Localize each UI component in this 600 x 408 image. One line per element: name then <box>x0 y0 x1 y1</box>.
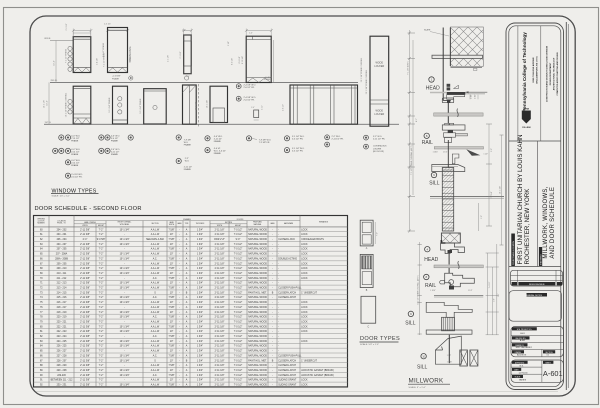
svg-text:2'-1 1/8": 2'-1 1/8" <box>180 51 182 58</box>
svg-text:10'-1 3/4": 10'-1 3/4" <box>120 370 130 372</box>
svg-text:2'-11 1/8": 2'-11 1/8" <box>215 263 225 265</box>
window tag bubbles column A <box>53 135 84 179</box>
svg-text:LOCK: LOCK <box>301 312 308 314</box>
svg-text:FROM - TO: FROM - TO <box>57 223 66 225</box>
svg-text:10": 10" <box>170 244 174 246</box>
svg-text:NATURAL WOOD: NATURAL WOOD <box>248 384 267 387</box>
svg-text:1 3/4": 1 3/4" <box>197 292 203 294</box>
svg-text:10": 10" <box>170 341 174 343</box>
svg-text:LOCK: LOCK <box>301 263 308 265</box>
svg-text:7'-0 1/2": 7'-0 1/2" <box>234 380 243 382</box>
svg-text:2'-11 3/8": 2'-11 3/8" <box>80 292 90 294</box>
svg-text:2'-11 1/8": 2'-11 1/8" <box>215 229 225 231</box>
door type A elevation <box>360 220 378 250</box>
rail callout bubble 8 <box>422 133 433 146</box>
svg-text:DOOR TYPES: DOOR TYPES <box>360 336 400 342</box>
svg-text:2'-11 3/8": 2'-11 3/8" <box>80 278 90 280</box>
window tag bubbles column B <box>99 135 134 156</box>
svg-text:1 3/4": 1 3/4" <box>197 317 203 319</box>
svg-text:207 - 205: 207 - 205 <box>57 249 68 251</box>
svg-text:2'-11 3/8": 2'-11 3/8" <box>80 268 90 270</box>
svg-text:1ST FL: 1ST FL <box>45 122 52 124</box>
svg-text:214 - 215: 214 - 215 <box>57 292 68 294</box>
svg-text:7'-2": 7'-2" <box>99 370 104 372</box>
svg-text:10": 10" <box>170 234 174 236</box>
college inner box lines <box>518 26 541 141</box>
svg-text:1'-0": 1'-0" <box>481 215 483 219</box>
svg-text:7'-2": 7'-2" <box>99 283 104 285</box>
svg-text:2'-11 1/8": 2'-11 1/8" <box>215 312 225 314</box>
svg-text:2'-11 1/8": 2'-11 1/8" <box>215 321 225 323</box>
svg-text:COMPUTER AIDED DRAFTING AND DE: COMPUTER AIDED DRAFTING AND DESIGN <box>556 52 559 96</box>
window type elevation V2 <box>108 86 128 124</box>
datum line second floor <box>50 80 358 82</box>
svg-text:7'-2 1/2" FRAME: 7'-2 1/2" FRAME <box>102 52 105 67</box>
window jamb channel <box>443 28 451 101</box>
svg-text:7'-2 1/2" FRAME: 7'-2 1/2" FRAME <box>65 48 68 63</box>
svg-text:208A - 208B: 208A - 208B <box>55 257 68 260</box>
svg-text:A.A.L.W: A.A.L.W <box>151 267 160 270</box>
glass stop head <box>442 98 453 103</box>
svg-text:222 - 223: 222 - 223 <box>57 331 68 333</box>
svg-text:12/7/2000: 12/7/2000 <box>519 372 529 374</box>
svg-text:LOCK: LOCK <box>301 385 308 387</box>
svg-text:2'-11 3/8": 2'-11 3/8" <box>80 263 90 265</box>
svg-text:ACOUSTIC GASKET (BRD-80): ACOUSTIC GASKET (BRD-80) <box>301 374 334 377</box>
svg-text:7'-0 1/2": 7'-0 1/2" <box>234 249 243 251</box>
svg-text:2'-11 3/8": 2'-11 3/8" <box>80 317 90 319</box>
svg-text:A.A.L.W: A.A.L.W <box>151 272 160 275</box>
svg-text:2 1/8": 2 1/8" <box>228 41 230 46</box>
svg-text:CLOSER-LATCH: CLOSER-LATCH <box>278 364 296 367</box>
svg-text:PAINT HOL. MET.: PAINT HOL. MET. <box>248 359 267 362</box>
svg-text:2'-11 1/2" FR.: 2'-11 1/2" FR. <box>332 139 345 141</box>
svg-text:2'-11 1/8": 2'-11 1/8" <box>215 370 225 372</box>
svg-text:4'-1": 4'-1" <box>416 118 418 122</box>
svg-text:2'-11 3/8": 2'-11 3/8" <box>80 385 90 387</box>
svg-text:10'-1 3/4": 10'-1 3/4" <box>120 229 130 231</box>
svg-text:A.C.: A.C. <box>153 316 158 319</box>
svg-text:DESIGN DEPARTMENT: DESIGN DEPARTMENT <box>549 62 552 85</box>
svg-text:7'-0 1/2": 7'-0 1/2" <box>234 346 243 348</box>
svg-text:10'-1 3/4": 10'-1 3/4" <box>120 239 130 241</box>
svg-text:2'-11 3/8": 2'-11 3/8" <box>80 326 90 328</box>
svg-text:1 1/16": 1 1/16" <box>433 151 439 153</box>
svg-text:5'-6 1/2": 5'-6 1/2" <box>283 104 285 111</box>
svg-text:A.A.L.W: A.A.L.W <box>151 233 160 236</box>
svg-text:7'-2": 7'-2" <box>99 297 104 299</box>
svg-text:NET SIZE: NET SIZE <box>225 222 232 224</box>
svg-text:2 1/8": 2 1/8" <box>471 94 473 99</box>
svg-text:10'-2": 10'-2" <box>54 60 56 65</box>
svg-text:7'-2": 7'-2" <box>99 331 104 333</box>
svg-text:2'-11 1/8": 2'-11 1/8" <box>215 336 225 338</box>
svg-text:ARCHITECTURAL TECHNOLOGY: ARCHITECTURAL TECHNOLOGY <box>553 57 556 90</box>
svg-text:7'-2": 7'-2" <box>99 346 104 348</box>
svg-text:7'-0 1/2": 7'-0 1/2" <box>234 341 243 343</box>
svg-text:LOCK: LOCK <box>301 326 308 328</box>
svg-text:10'-1 3/4" FRAME: 10'-1 3/4" FRAME <box>108 97 111 113</box>
project name label chip <box>511 234 515 267</box>
svg-text:207 - 208A: 207 - 208A <box>56 253 68 256</box>
svg-text:218 - 217: 218 - 217 <box>57 307 68 309</box>
svg-text:A.A.L.W: A.A.L.W <box>151 287 160 290</box>
svg-text:LOCK: LOCK <box>301 258 308 260</box>
svg-text:10'-1 3/4": 10'-1 3/4" <box>120 283 130 285</box>
dimension ticks above windows <box>72 29 273 37</box>
svg-text:HEIGHT: HEIGHT <box>98 225 104 227</box>
svg-text:7 5/8": 7 5/8" <box>168 326 174 328</box>
svg-text:2'-11 1/8": 2'-11 1/8" <box>215 317 225 319</box>
svg-text:7 5/8": 7 5/8" <box>168 355 174 357</box>
slate band <box>424 29 483 59</box>
svg-text:1 1/2": 1 1/2" <box>468 290 473 292</box>
svg-text:2'-11 1/8": 2'-11 1/8" <box>215 365 225 367</box>
svg-text:2'-11 3/8": 2'-11 3/8" <box>80 258 90 260</box>
svg-text:2'-11 3/8": 2'-11 3/8" <box>80 360 90 362</box>
svg-text:7'-2": 7'-2" <box>99 380 104 382</box>
svg-text:1" UNDERCUT: 1" UNDERCUT <box>301 292 317 294</box>
general notes box <box>509 291 562 322</box>
svg-text:A.A.L.W: A.A.L.W <box>151 340 160 343</box>
svg-text:10'-2 1/8": 10'-2 1/8" <box>44 100 46 108</box>
inner margin line bottom <box>36 391 558 393</box>
svg-text:WIDTH: WIDTH <box>82 225 88 227</box>
window tag bubbles pair right <box>325 135 344 147</box>
svg-text:2'-11 1/2" FR.: 2'-11 1/2" FR. <box>373 138 386 140</box>
svg-text:2'-11 1/8": 2'-11 1/8" <box>215 302 225 304</box>
svg-text:1 3/4": 1 3/4" <box>197 365 203 367</box>
svg-text:1 3/4": 1 3/4" <box>197 239 203 241</box>
level band upper <box>434 109 483 117</box>
svg-text:2'-11 1/8": 2'-11 1/8" <box>215 380 225 382</box>
svg-text:FRAME: FRAME <box>111 153 119 156</box>
svg-text:2'-11 3/8": 2'-11 3/8" <box>80 321 90 323</box>
svg-text:NATURAL WOOD: NATURAL WOOD <box>248 272 267 275</box>
svg-text:1 3/4": 1 3/4" <box>197 312 203 314</box>
svg-text:NATURAL WOOD: NATURAL WOOD <box>248 262 267 265</box>
svg-text:ERIC LAUGHREY: ERIC LAUGHREY <box>516 346 533 349</box>
svg-text:ROCHESTER, NEW YORK: ROCHESTER, NEW YORK <box>524 188 531 265</box>
svg-text:NATURAL WOOD: NATURAL WOOD <box>248 282 267 285</box>
svg-text:2'-11 1/8": 2'-11 1/8" <box>215 288 225 290</box>
svg-text:2'-11 3/8": 2'-11 3/8" <box>80 307 90 309</box>
svg-text:10'-2": 10'-2" <box>47 100 49 105</box>
svg-text:224 - 225: 224 - 225 <box>57 341 68 343</box>
svg-text:CLOSER PUSH-PULL: CLOSER PUSH-PULL <box>278 288 302 290</box>
svg-text:2'-11 1/8": 2'-11 1/8" <box>215 297 225 299</box>
svg-text:NATURAL WOOD: NATURAL WOOD <box>248 325 267 328</box>
svg-text:7'-1 1/8" (B.F.F.): 7'-1 1/8" (B.F.F.) <box>407 61 409 75</box>
revisions box <box>511 270 563 286</box>
svg-text:NATURAL WOOD: NATURAL WOOD <box>248 287 267 290</box>
svg-text:10'-1 3/4": 10'-1 3/4" <box>120 302 130 304</box>
svg-text:2ND FL: 2ND FL <box>51 80 59 82</box>
svg-text:FRAME: FRAME <box>264 78 271 81</box>
svg-text:10": 10" <box>170 380 174 382</box>
door schedule heading <box>35 206 142 212</box>
svg-text:10'-1 3/4": 10'-1 3/4" <box>120 268 130 270</box>
svg-text:7'-2": 7'-2" <box>99 288 104 290</box>
svg-text:10'-1 3/4": 10'-1 3/4" <box>120 385 130 387</box>
svg-text:NATURAL WOOD: NATURAL WOOD <box>248 364 267 367</box>
svg-text:2'-11 3/8": 2'-11 3/8" <box>80 355 90 357</box>
svg-text:10'-1 3/4": 10'-1 3/4" <box>120 360 130 362</box>
svg-text:PAINT HOL. MET.: PAINT HOL. MET. <box>248 291 267 294</box>
svg-text:MILLWORK: MILLWORK <box>409 377 445 384</box>
svg-text:10'-1 3/4": 10'-1 3/4" <box>120 288 130 290</box>
svg-text:1 3/4": 1 3/4" <box>197 234 203 236</box>
svg-text:7'-2": 7'-2" <box>99 365 104 367</box>
svg-text:7 5/8": 7 5/8" <box>168 385 174 387</box>
svg-text:LOCK: LOCK <box>301 273 308 275</box>
svg-text:SECTION: SECTION <box>151 223 159 225</box>
svg-text:2'-11 3/8": 2'-11 3/8" <box>80 375 90 377</box>
window type elevation V5 <box>207 86 228 122</box>
svg-text:1 3/4": 1 3/4" <box>197 244 203 246</box>
glazing triangle head <box>454 85 459 88</box>
level band millwork <box>434 261 483 269</box>
svg-text:7'-2 3/8" FR.: 7'-2 3/8" FR. <box>259 142 271 144</box>
svg-text:2'-11 3/8": 2'-11 3/8" <box>80 370 90 372</box>
svg-text:2'-11 3/8": 2'-11 3/8" <box>80 283 90 285</box>
svg-text:7'-1 1/8" FRAME OVERALL (A.F.T: 7'-1 1/8" FRAME OVERALL (A.F.T.) <box>410 145 413 175</box>
sill callout bubble 6 <box>429 172 440 186</box>
svg-text:2'-11 1/8": 2'-11 1/8" <box>215 268 225 270</box>
svg-text:7'-2": 7'-2" <box>99 336 104 338</box>
svg-text:10": 10" <box>170 370 174 372</box>
svg-text:ACOUSTIC GASKET (BRD-80): ACOUSTIC GASKET (BRD-80) <box>301 369 334 372</box>
college name text <box>522 32 527 112</box>
svg-text:RAIL: RAIL <box>425 283 436 289</box>
svg-text:7'-0 1/2": 7'-0 1/2" <box>234 273 243 275</box>
svg-text:7'-2": 7'-2" <box>99 229 104 231</box>
svg-text:REMARKS: REMARKS <box>319 220 329 223</box>
window type elevation V3 <box>139 89 166 124</box>
svg-text:7'-2": 7'-2" <box>99 273 104 275</box>
svg-text:10": 10" <box>170 302 174 304</box>
svg-text:2'-11 1/8": 2'-11 1/8" <box>215 278 225 280</box>
svg-text:2'-11 1/8": 2'-11 1/8" <box>215 292 225 294</box>
svg-text:2'-1": 2'-1" <box>182 30 186 32</box>
svg-text:10": 10" <box>170 360 174 362</box>
svg-text:7'-0 1/2": 7'-0 1/2" <box>234 297 243 299</box>
svg-text:10'-1 3/4": 10'-1 3/4" <box>120 254 130 256</box>
svg-text:7'-2": 7'-2" <box>99 302 104 304</box>
svg-text:7 5/8": 7 5/8" <box>168 336 174 338</box>
svg-text:1 3/4": 1 3/4" <box>197 283 203 285</box>
head dim box <box>470 94 478 99</box>
svg-text:10'-1 3/4": 10'-1 3/4" <box>120 273 130 275</box>
svg-text:SILL: SILL <box>417 364 428 370</box>
svg-text:7'-0 1/2": 7'-0 1/2" <box>234 244 243 246</box>
svg-text:CLOSER-LOCK: CLOSER-LOCK <box>278 239 295 241</box>
svg-text:1 3/4": 1 3/4" <box>197 278 203 280</box>
svg-text:5'-6 1/2" FR.: 5'-6 1/2" FR. <box>292 151 304 153</box>
svg-text:20'-1 3/4" FRAME OVERALL: 20'-1 3/4" FRAME OVERALL <box>360 58 363 82</box>
svg-text:LOCK: LOCK <box>301 278 308 280</box>
svg-text:2'-0": 2'-0" <box>249 33 253 35</box>
door schedule header text <box>37 218 329 227</box>
svg-text:RAIL: RAIL <box>422 140 433 146</box>
project info box <box>511 326 563 356</box>
svg-text:SECTION:: SECTION: <box>545 352 553 354</box>
svg-text:NATURAL WOOD: NATURAL WOOD <box>248 301 267 304</box>
stone sill ledge <box>432 165 465 172</box>
svg-text:1 3/4": 1 3/4" <box>197 355 203 357</box>
svg-text:WIDTH: WIDTH <box>217 225 223 227</box>
svg-text:1 3/4": 1 3/4" <box>197 336 203 338</box>
svg-text:2'-6 1/2" FR.: 2'-6 1/2" FR. <box>244 100 256 102</box>
small panel P <box>251 107 259 120</box>
svg-text:2'-11 3/8": 2'-11 3/8" <box>80 229 90 231</box>
svg-text:10": 10" <box>170 351 174 353</box>
svg-text:A.C.: A.C. <box>153 296 158 299</box>
svg-text:FRAMES: FRAMES <box>183 218 191 221</box>
millwork head assembly <box>441 243 465 254</box>
svg-text:A.A.L.W: A.A.L.W <box>151 243 160 246</box>
svg-text:8'-0 1/4": 8'-0 1/4" <box>232 58 234 65</box>
svg-text:A.A.L.W: A.A.L.W <box>151 301 160 304</box>
millwork masonry hatch <box>441 233 460 243</box>
svg-text:CONCEALED BOLTS: CONCEALED BOLTS <box>301 238 324 241</box>
svg-text:2'-11 1/8": 2'-11 1/8" <box>215 346 225 348</box>
svg-text:10'-1 3/4": 10'-1 3/4" <box>120 244 130 246</box>
svg-text:GENERAL NOTES: GENERAL NOTES <box>525 294 543 297</box>
svg-text:10'-1 3/4": 10'-1 3/4" <box>196 102 198 110</box>
svg-text:7'-0 1/2": 7'-0 1/2" <box>234 355 243 357</box>
svg-text:MILLWORK, WINDOWS,: MILLWORK, WINDOWS, <box>543 186 549 258</box>
svg-text:ORN B: ORN B <box>44 38 51 40</box>
svg-text:1 3/4": 1 3/4" <box>197 288 203 290</box>
svg-text:2'-11 1/8": 2'-11 1/8" <box>215 385 225 387</box>
svg-text:BETWEEN 211 - 212: BETWEEN 211 - 212 <box>51 380 74 382</box>
svg-text:A-601: A-601 <box>543 369 563 378</box>
svg-text:NATURAL WOOD: NATURAL WOOD <box>248 330 267 333</box>
svg-text:8'-10 3/4": 8'-10 3/4" <box>242 56 244 64</box>
svg-text:NATURAL WOOD: NATURAL WOOD <box>248 277 267 280</box>
svg-text:A.A.L.W: A.A.L.W <box>151 364 160 367</box>
svg-text:SCALE: 3" = 1'-0": SCALE: 3" = 1'-0" <box>409 386 426 389</box>
svg-text:10": 10" <box>170 254 174 256</box>
head leader line <box>430 92 447 94</box>
svg-text:FRAME: FRAME <box>184 144 192 147</box>
svg-text:7'-2": 7'-2" <box>99 292 104 294</box>
svg-text:7'-2": 7'-2" <box>99 249 104 251</box>
svg-text:7 5/8": 7 5/8" <box>168 268 174 270</box>
svg-text:2'-11 3/8": 2'-11 3/8" <box>80 288 90 290</box>
svg-text:NATURAL WOOD: NATURAL WOOD <box>248 374 267 377</box>
datum line first floor <box>44 122 399 124</box>
svg-text:7'-2": 7'-2" <box>99 244 104 246</box>
svg-text:216 - 217: 216 - 217 <box>57 302 68 304</box>
svg-text:NATURAL WOOD: NATURAL WOOD <box>248 243 267 246</box>
meeting rail assembly <box>442 123 467 142</box>
svg-text:7'-0 1/2": 7'-0 1/2" <box>234 254 243 256</box>
svg-text:LOCK: LOCK <box>301 229 308 231</box>
svg-text:2'-11 3/8": 2'-11 3/8" <box>80 341 90 343</box>
svg-text:LOCK: LOCK <box>301 307 308 309</box>
svg-text:WINDOW 12 B 16: WINDOW 12 B 16 <box>130 46 132 61</box>
svg-text:NATURAL WOOD: NATURAL WOOD <box>248 257 267 260</box>
svg-text:A.A.L.W: A.A.L.W <box>151 311 160 314</box>
level band rail sill <box>434 147 488 156</box>
svg-text:1 3/4": 1 3/4" <box>197 258 203 260</box>
svg-text:5'-6 1/2" FR.: 5'-6 1/2" FR. <box>292 139 304 141</box>
svg-text:TYPE: TYPE <box>185 223 189 225</box>
window tag bubbles near V5 <box>236 84 256 102</box>
svg-text:WIDTH: WIDTH <box>169 224 175 226</box>
svg-text:7'-0 1/2": 7'-0 1/2" <box>234 229 243 231</box>
svg-text:7'-2": 7'-2" <box>99 341 104 343</box>
svg-text:2'-11 3/8": 2'-11 3/8" <box>80 254 90 256</box>
svg-text:10'-1 3/4": 10'-1 3/4" <box>499 186 501 194</box>
svg-text:2'-11 1/8": 2'-11 1/8" <box>215 234 225 236</box>
svg-text:NATURAL WOOD: NATURAL WOOD <box>248 340 267 343</box>
millwork right dimension column <box>486 244 500 335</box>
roof datum line <box>44 38 73 40</box>
svg-text:SEE DWG A-602: SEE DWG A-602 <box>146 238 164 241</box>
window detail left dimension column <box>407 30 418 233</box>
svg-text:NATURAL WOOD: NATURAL WOOD <box>248 238 267 241</box>
svg-text:204 - 201: 204 - 201 <box>57 234 68 236</box>
svg-text:CLOSER PUSH-PULL: CLOSER PUSH-PULL <box>278 355 302 357</box>
svg-text:A.C.: A.C. <box>153 335 158 338</box>
svg-text:10'-1 3/4": 10'-1 3/4" <box>120 317 130 319</box>
svg-text:7 5/8": 7 5/8" <box>168 258 174 260</box>
millwork base sill 10 steps <box>435 335 461 364</box>
svg-text:DOOR SCHEDULE - SECOND FLOOR: DOOR SCHEDULE - SECOND FLOOR <box>35 206 142 212</box>
window glass centerline lower <box>447 140 449 168</box>
window type elevation V4 <box>183 85 197 124</box>
svg-text:2'-11 3/8": 2'-11 3/8" <box>80 244 90 246</box>
millwork sill callout 10 <box>417 354 428 371</box>
svg-text:2'-11 1/8": 2'-11 1/8" <box>215 341 225 343</box>
head callout bubble 1 <box>426 77 440 92</box>
svg-text:7'-0 1/2": 7'-0 1/2" <box>234 268 243 270</box>
svg-text:7'-0 1/2": 7'-0 1/2" <box>234 307 243 309</box>
svg-text:DOUBLE ACTING: DOUBLE ACTING <box>278 257 297 260</box>
svg-text:7 5/8": 7 5/8" <box>168 239 174 241</box>
svg-text:A.A.L.W: A.A.L.W <box>151 330 160 333</box>
svg-text:1 3/4": 1 3/4" <box>197 229 203 231</box>
sheet title text <box>543 186 556 258</box>
svg-text:NATURAL WOOD: NATURAL WOOD <box>248 354 267 357</box>
svg-text:DOORS: DOORS <box>237 219 244 221</box>
svg-text:LOCK: LOCK <box>301 341 308 343</box>
svg-text:10'-1 3/4": 10'-1 3/4" <box>120 331 130 333</box>
svg-text:1 3/4": 1 3/4" <box>197 375 203 377</box>
svg-text:2'-11 1/8": 2'-11 1/8" <box>215 254 225 256</box>
svg-text:NATURAL WOOD: NATURAL WOOD <box>248 267 267 270</box>
svg-text:220 - 219: 220 - 219 <box>57 317 68 319</box>
millwork centerline <box>448 254 450 274</box>
svg-text:LOCK: LOCK <box>301 244 308 246</box>
svg-text:7'-0 1/2": 7'-0 1/2" <box>234 317 243 319</box>
svg-text:ADDISON: ADDISON <box>517 354 527 357</box>
svg-text:213 - 214: 213 - 214 <box>57 288 68 290</box>
svg-text:228 - 229: 228 - 229 <box>57 365 68 367</box>
svg-text:2'-11 3/8": 2'-11 3/8" <box>80 331 90 333</box>
svg-text:7'-2": 7'-2" <box>99 385 104 387</box>
svg-text:1 3/4": 1 3/4" <box>197 370 203 372</box>
svg-text:10'-1 3/4": 10'-1 3/4" <box>120 258 130 260</box>
svg-text:7'-0 1/2": 7'-0 1/2" <box>234 302 243 304</box>
svg-text:LOUVER: LOUVER <box>373 148 382 150</box>
svg-text:7 5/8": 7 5/8" <box>168 288 174 290</box>
svg-text:(NO DOOR): (NO DOOR) <box>373 151 384 153</box>
window type elevation V6 wide <box>290 85 358 124</box>
